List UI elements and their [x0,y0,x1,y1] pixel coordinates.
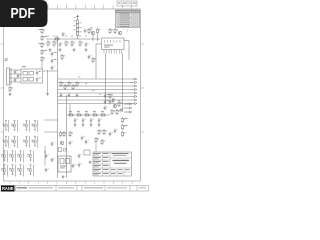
capacitor C40 [88,55,92,60]
border zone ticks top [48,5,132,9]
revision header box [117,1,137,6]
ground G4 [76,94,79,97]
ground G40 [49,48,52,51]
resistor R53 on bus [72,84,76,90]
bus wire net4 [58,89,132,91]
ground G3 [68,94,71,97]
connector J1 [5,59,12,86]
resistor R30 [63,131,67,137]
transistor Q6 cluster right [111,99,124,115]
ground G24 [89,161,92,164]
wire stub tb [95,143,97,152]
border zone ticks bottom [10,181,132,184]
resistor chain R10-R13 left [39,28,48,69]
wire to ground rail [47,70,49,92]
transistor Q13 output [23,136,29,148]
capacitor C15 [72,164,76,169]
wire rail right [66,95,68,178]
resistor chain R1-R3 top [74,15,82,39]
transistor Q14 output [32,136,38,148]
transistor Q20 output [9,164,15,176]
ground G6 [74,123,77,126]
resistor R22 [100,111,106,116]
border zone ticks left [1,44,4,132]
capacitor C36 [45,168,49,173]
transistor Q16 output [9,150,15,162]
capacitor C8 [17,74,21,79]
resistor R36 [101,139,105,145]
resistor R50 on bus [60,81,64,87]
resistor R17 [114,28,118,34]
capacitor column C4-C6 [51,52,57,71]
capacitor C16 [51,142,55,147]
resistor R54 on bus [76,81,80,87]
wire U1 right [124,40,129,42]
resistor R9 [79,41,83,47]
bus wire net2 [58,82,132,84]
transistor Q9 output [23,120,29,132]
wire vertical V1 [95,44,97,79]
resistor R52 on bus [68,81,72,87]
transistor Q18 output [27,150,33,162]
capacitor C9 [14,78,18,83]
ground G2 [60,94,63,97]
transistor Q11 output [3,136,9,148]
transistor Q15 output [1,150,7,162]
capacitor column C11-C13 [104,94,110,111]
transistor Q21 output [17,164,23,176]
wire conn net3 [11,77,21,79]
wire main row [46,38,100,40]
bus wire net1 [58,78,132,80]
transistor Q10 output [32,120,38,132]
resistor R51 on bus [64,84,68,90]
capacitor C35 [45,154,49,159]
wire conn net2 [11,73,21,75]
resistor R29 [60,131,64,137]
transistor Q19 output [1,164,7,176]
wire stub [44,146,46,166]
wire mid row [67,114,110,116]
connector stubs P2 [132,78,138,105]
bus wire net5 [58,92,132,94]
ground under C2 [73,48,76,51]
ground G30 [46,92,49,95]
wire U1 left [96,43,102,45]
transistor Q1 cluster [90,28,100,42]
wire drop left [69,104,71,115]
bus wire net6 [58,96,132,98]
transistor Q12 output [11,136,17,148]
net label marks on bus [78,77,101,95]
capacitor C32 [81,136,85,141]
wire crossbar2 [44,131,58,133]
capacitor C25 [98,118,102,123]
transistor Q24 [118,31,122,35]
capacitor C24 [90,118,94,123]
label marks row [47,35,87,38]
capacitor C20 [78,163,82,168]
ground G8 [90,123,93,126]
resistor R20 [84,111,90,116]
relay K1 box [21,66,43,83]
transistor Q22 output [27,164,33,176]
capacitor C22 [74,118,78,123]
resistor R5 [54,37,60,40]
ground G31 [9,93,12,96]
wire conn net4 [11,81,21,83]
op-amp U1 [102,38,125,54]
node dot A [44,151,45,152]
wire link [43,70,58,72]
ground G23 [62,175,65,178]
wire conn net1 [11,69,21,71]
small box BT1 [84,150,90,155]
resistor R35 [95,137,99,143]
resistor R19 [76,111,82,116]
capacitor C7 [14,70,18,75]
capacitor C2 [85,42,89,47]
ground under C1 [59,48,62,51]
ground under C3 [85,48,88,51]
capacitor C37 [62,32,66,37]
transistor Q23 [60,141,64,145]
resistor R8 [71,41,75,47]
wire vertical V3 [122,54,124,113]
PDF badge [0,0,48,27]
svg-text:RANE: RANE [2,186,14,191]
capacitor C19 [78,154,82,159]
capacitor C33 [85,140,89,145]
resistor R4 [47,41,51,47]
transistor Q7 output [3,120,9,132]
transistor Q8 output [11,120,17,132]
resistor R31 [69,131,73,137]
resistor R21 [92,111,98,116]
resistor R6 [53,41,57,47]
bus wire net7 [58,99,132,101]
capacitor C18 [109,132,113,137]
resistor R41 [61,54,65,60]
transistor Q17 output [17,150,23,162]
capacitor C23 [82,118,86,123]
capacitor C1 [59,42,63,47]
connector stubs P3 [124,103,132,113]
border zone ticks right [141,44,145,132]
bus wire net3 [58,85,132,87]
wire rail left [57,36,59,178]
resistor R32 [98,129,102,135]
resistor R7 [65,41,69,47]
capacitor C38 [109,100,113,105]
resistor R37 [109,93,113,99]
ground G7 [82,123,85,126]
capacitor C21 [84,29,88,34]
resistor R42 [92,57,96,63]
capacitor C30 [36,71,41,76]
capacitor C34 [114,129,118,134]
title block [93,152,132,176]
resistor R33 [103,129,107,135]
wire crossbar [44,119,58,121]
border frame [4,9,141,181]
relay K2 box [58,156,71,172]
ground G9 [98,123,101,126]
bus wire net8 [58,103,132,105]
svg-text:PDF: PDF [11,5,36,22]
capacitor C31 [36,77,41,82]
logo [1,186,15,192]
potentiometer VR1 [59,148,67,152]
resistor R18 [68,111,74,116]
resistor R34 [88,28,92,34]
resistor chain R26-R28 [122,117,128,137]
revision table [116,10,140,28]
resistor R16 [109,28,113,34]
resistor R40 below connector [9,86,13,92]
capacitor C17 [51,158,55,163]
footer band [0,186,149,192]
wire vertical V2 [105,54,107,104]
capacitor C14 [69,141,73,146]
